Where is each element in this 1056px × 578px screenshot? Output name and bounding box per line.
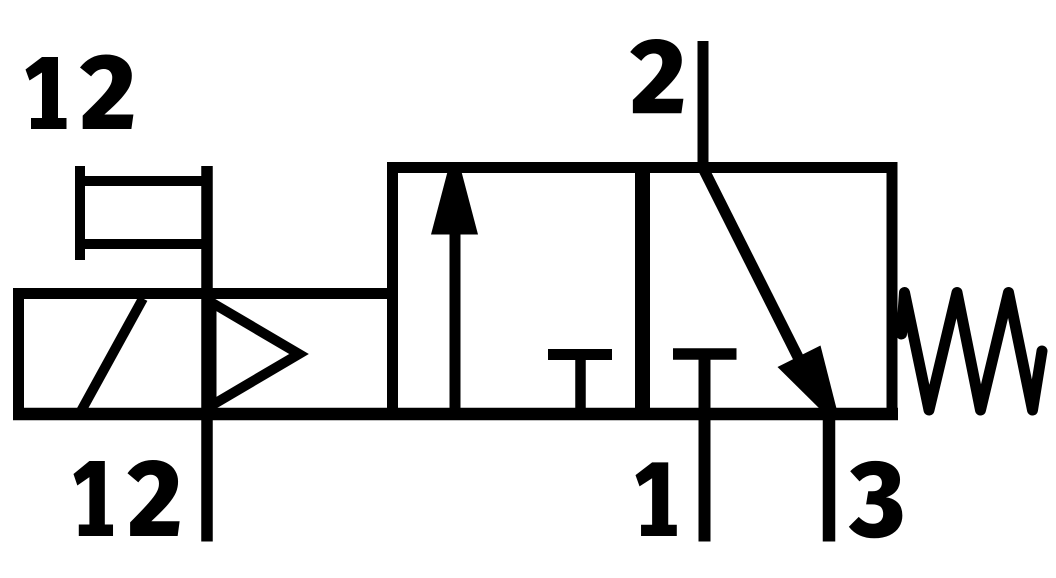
blocked port 3 symbol (left box) bar bbox=[548, 349, 612, 360]
port 2 line bbox=[698, 41, 709, 172]
exhaust arrow (2 to 3) shaft bbox=[704, 170, 806, 373]
flow arrow (1 to 2) shaft bbox=[450, 230, 461, 410]
bottom rail (shared bottom edge) bbox=[13, 408, 898, 421]
port label 1 (bottom) bbox=[636, 462, 677, 536]
pilot line bracket bottom rail bbox=[75, 239, 211, 249]
port 1 line bbox=[699, 354, 711, 542]
blocked port 1 symbol (right box) bar bbox=[673, 348, 737, 360]
port label 3 (bottom) bbox=[849, 461, 903, 538]
main valve body: right position box bbox=[643, 168, 893, 415]
main valve body: left position box bbox=[393, 168, 643, 415]
port label 12 (top left) digit 1 bbox=[26, 57, 67, 129]
port label 2 (top) bbox=[630, 39, 683, 113]
pilot valve body (actuator box) bbox=[19, 294, 393, 415]
pilot line bracket top rail bbox=[75, 176, 211, 186]
port 12 vertical line bbox=[201, 166, 213, 542]
port label 12 (bottom) digit 2 bbox=[127, 460, 179, 536]
port label 12 (bottom) digit 1 bbox=[73, 461, 113, 536]
position divider bbox=[635, 162, 650, 420]
pilot lever diagonal bbox=[80, 299, 143, 414]
port label 12 (top left) digit 2 bbox=[80, 55, 133, 129]
flow arrow (1 to 2) head bbox=[431, 168, 478, 235]
blocked port 3 symbol (left box) stem bbox=[575, 355, 586, 415]
port 3 line bbox=[823, 414, 836, 542]
pilot line bracket left bar bbox=[75, 166, 85, 260]
exhaust arrow (2 to 3) head bbox=[778, 346, 837, 415]
return spring bbox=[902, 293, 1043, 411]
pilot pneumatic triangle bbox=[212, 303, 300, 406]
